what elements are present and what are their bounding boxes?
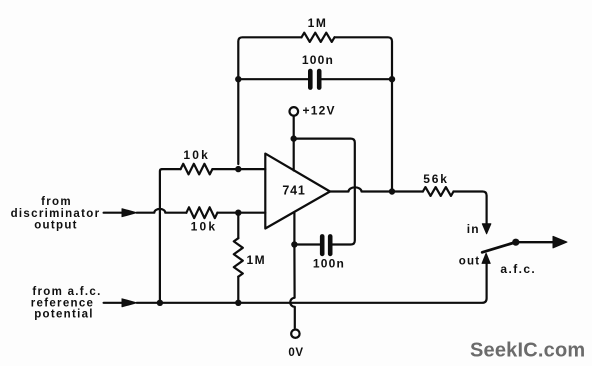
- svg-text:potential: potential: [34, 309, 94, 321]
- svg-text:+12V: +12V: [303, 104, 336, 118]
- wire feedback top loop (1M branch): [238, 37, 301, 164]
- svg-text:56k: 56k: [423, 172, 448, 186]
- wire 56k to switch-in corner: [454, 192, 487, 225]
- node dot rail left vertical junction: [157, 300, 163, 306]
- wire op-amp output with hop over decoupling branch: [330, 187, 423, 191]
- resistor R4 1M vertical: [237, 213, 239, 239]
- arrowhead switch out contact: [482, 253, 490, 263]
- svg-text:output: output: [34, 220, 78, 232]
- svg-text:1M: 1M: [308, 16, 328, 30]
- wire switch pole to a.f.c. arrow: [516, 241, 555, 243]
- node dot feedback left 100n junction: [235, 76, 241, 82]
- node dot +12V branch junction: [291, 135, 297, 141]
- resistor R1 1M feedback zigzag: [302, 33, 335, 42]
- svg-text:100n: 100n: [302, 53, 334, 67]
- node dot pin4 decoupling junction: [291, 241, 297, 247]
- svg-text:0V: 0V: [288, 347, 303, 359]
- wire decoupling loop top and right: [294, 139, 355, 245]
- node dot feedback right 100n junction: [389, 76, 395, 82]
- wire decoupling bottom to pin4: [294, 243, 319, 245]
- wire 10k lower to non-inverting input: [217, 212, 265, 214]
- svg-text:out: out: [459, 255, 480, 267]
- arrowhead switch in contact: [482, 224, 491, 234]
- resistor R3 10k lower zigzag: [186, 207, 217, 218]
- svg-text:in: in: [467, 222, 480, 236]
- wire op-amp pin4 down with hop over rail: [290, 213, 295, 328]
- arrowhead a.f.c. output: [553, 236, 567, 248]
- svg-text:SeekIC.com: SeekIC.com: [470, 340, 585, 362]
- wire top 10k right to inverting input: [212, 168, 265, 170]
- svg-text:10k: 10k: [191, 219, 218, 233]
- svg-text:a.f.c.: a.f.c.: [500, 262, 536, 276]
- svg-text:1M: 1M: [247, 253, 267, 267]
- wire 100n feedback right: [321, 78, 392, 80]
- resistor R5 56k zigzag: [423, 187, 454, 196]
- terminal 0V circle: [291, 330, 299, 338]
- wire top 10k left: [162, 168, 181, 170]
- wire feedback top right: [335, 37, 393, 190]
- svg-text:from a.f.c.: from a.f.c.: [32, 286, 101, 298]
- svg-text:discriminator: discriminator: [11, 208, 101, 220]
- svg-text:100n: 100n: [313, 256, 345, 270]
- wire +12V supply stem: [293, 116, 295, 171]
- wire input node vertical (left): [160, 169, 162, 301]
- resistor R2 10k upper zigzag: [181, 164, 213, 175]
- switch S1 lever: [482, 243, 514, 253]
- capacitor C2 100n decoupling plates: [322, 236, 330, 254]
- node dot rail 1M junction: [235, 300, 241, 306]
- node dot inverting input node: [235, 166, 241, 172]
- node dot non-inverting input node: [235, 210, 241, 216]
- svg-text:741: 741: [282, 183, 305, 197]
- op-amp U1 741 triangle: [265, 154, 330, 229]
- arrowhead input discriminator: [122, 209, 137, 217]
- capacitor C1 100n feedback plates: [310, 71, 319, 88]
- arrowhead a.f.c. reference input: [122, 299, 137, 307]
- terminal +12V circle: [290, 107, 299, 116]
- svg-text:from: from: [41, 196, 72, 208]
- node dot switch pole: [512, 239, 519, 246]
- svg-text:10k: 10k: [183, 148, 210, 162]
- wire 100n feedback left: [238, 78, 308, 80]
- wire a.f.c. reference rail: [104, 263, 487, 303]
- wire discriminator input with hop over vertical: [104, 209, 187, 213]
- node dot output junction: [389, 188, 395, 194]
